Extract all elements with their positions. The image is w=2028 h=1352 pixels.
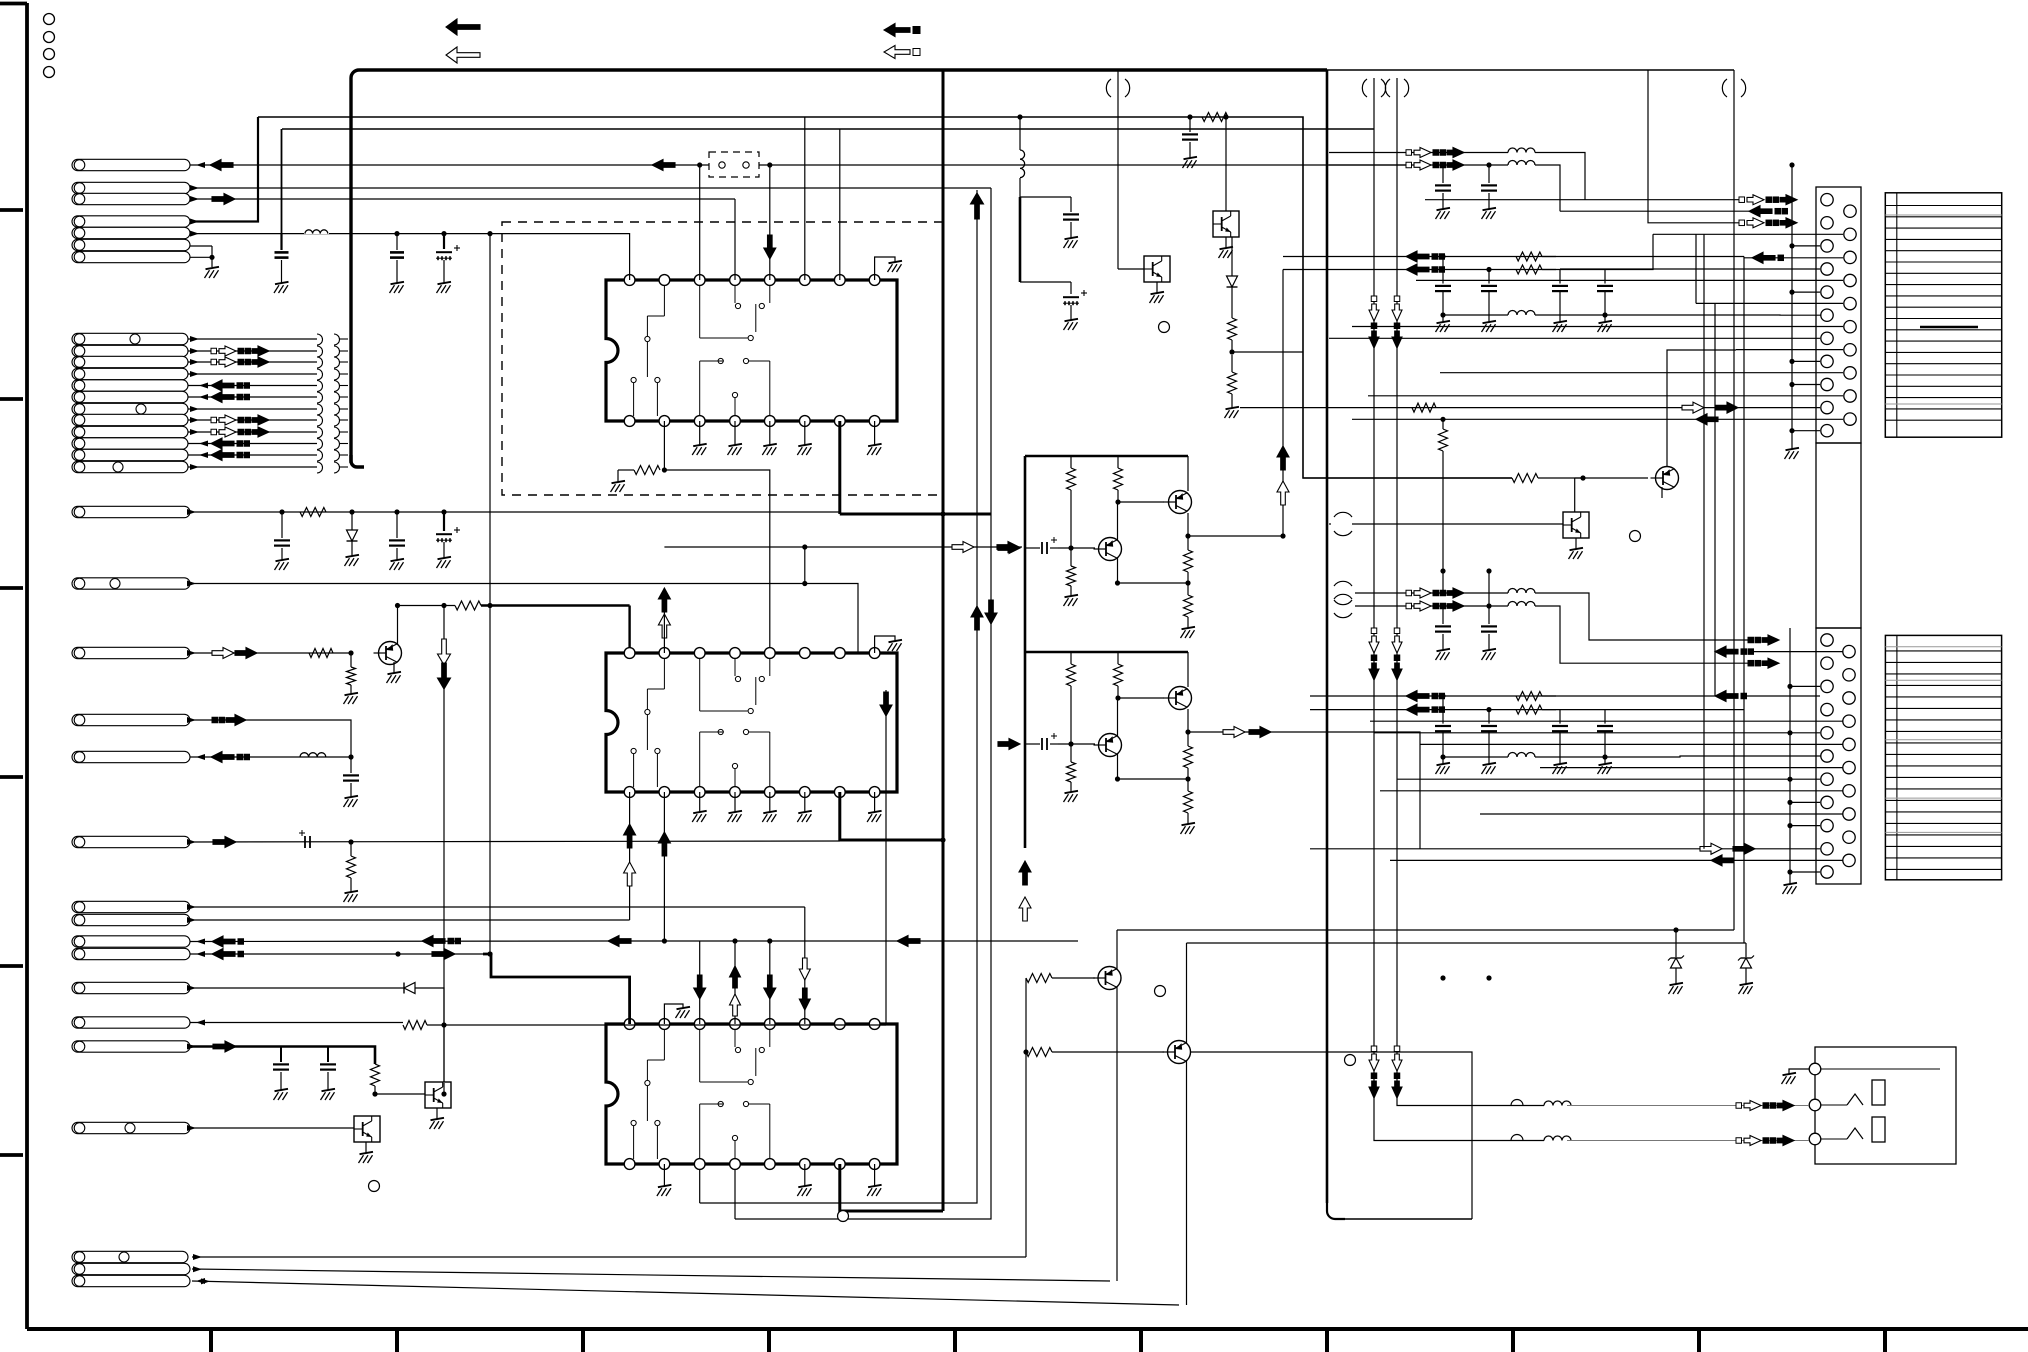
connector pin B11 bbox=[72, 449, 188, 460]
CN1 pin R7 bbox=[1844, 344, 1856, 356]
connector pin B7 bbox=[72, 403, 188, 414]
ground opto E bbox=[1575, 538, 1577, 549]
cluster1 output up bbox=[1282, 270, 1284, 537]
resistor on P8 wire bbox=[300, 508, 326, 517]
filter out row y269.5 bbox=[1283, 269, 1556, 271]
cable hook B10 a bbox=[317, 439, 323, 450]
CN1 feed row R9 bbox=[1368, 395, 1843, 397]
CN1 feed row R5 bbox=[1696, 302, 1843, 304]
connector pin P9b bbox=[72, 714, 190, 725]
groupB row1 right bbox=[1542, 256, 1744, 258]
ground cap right top bbox=[1064, 237, 1079, 248]
jack cluster R bbox=[1736, 1138, 1742, 1144]
CN1 feed row L7 bbox=[1329, 337, 1820, 339]
inductor P9c bbox=[300, 753, 326, 757]
filter inductor a bbox=[1508, 148, 1535, 153]
ground U3 pin6 bbox=[804, 1164, 806, 1186]
ground U1 pin6 bbox=[804, 421, 806, 445]
arrow on P3 wire bbox=[212, 194, 235, 205]
amp cluster 1 elcap2 bbox=[1041, 542, 1043, 554]
connector pin B6 bbox=[72, 391, 188, 402]
filter out cap 1489 bbox=[1488, 710, 1490, 724]
wire P12 bbox=[190, 919, 630, 921]
filter out cluster y269.5 bbox=[1406, 264, 1429, 275]
break groupC b bbox=[1334, 594, 1352, 599]
connector pin P20 bbox=[72, 1263, 190, 1274]
U1 pin2 bottom resistor bbox=[663, 421, 665, 470]
arrow cluster B8 bbox=[211, 417, 217, 423]
cable hook B8 b bbox=[334, 415, 340, 426]
wire pin3 up bbox=[699, 165, 701, 280]
thick stub x1020 bbox=[1019, 197, 1022, 282]
groupB cluster right bbox=[1752, 252, 1775, 263]
filter row y593 line bbox=[1355, 592, 1508, 594]
connector pin P14 bbox=[72, 948, 190, 959]
CN2 feed row R4 bbox=[1370, 720, 1843, 722]
filter out bus bbox=[1443, 314, 1508, 316]
wire to opto A bbox=[375, 1093, 425, 1095]
cap P17 a bbox=[280, 1047, 282, 1063]
ground U2 pin5 bbox=[769, 792, 771, 812]
resistor P16 bbox=[403, 1021, 427, 1030]
ground P10 res bbox=[344, 693, 359, 704]
filter out gnd 1605 bbox=[1598, 321, 1613, 332]
filter row y606 line bbox=[1355, 605, 1508, 607]
filter out gnd 1443 bbox=[1436, 321, 1451, 332]
ground U2 pin4 bbox=[734, 792, 736, 812]
link y547 to P9 wire bbox=[804, 547, 806, 584]
cap y117 drop bbox=[1189, 117, 1191, 132]
wire P4 thick elbow bbox=[190, 117, 258, 222]
legend arrow open left bbox=[446, 47, 480, 63]
amp cluster 1 resistor b bbox=[1117, 456, 1119, 468]
page border bottom bbox=[27, 1327, 2028, 1331]
border tick bottom 6 bbox=[1139, 1329, 1143, 1352]
ground elcap P8 bbox=[437, 557, 452, 568]
jack cluster L bbox=[1736, 1103, 1742, 1109]
U1 gnd jog bbox=[875, 257, 895, 280]
filter cluster y152.5 bbox=[1406, 150, 1412, 156]
CN2 arrow solid L10 bbox=[1733, 843, 1755, 854]
Q3a base vertical bbox=[1025, 978, 1027, 1257]
cable hook B7 b bbox=[334, 404, 340, 415]
break mark x1118 bbox=[1106, 79, 1111, 97]
ground cap2 P5 bbox=[390, 282, 405, 293]
filter out cluster y709.6 bbox=[1406, 704, 1429, 715]
legend arrow solid left with square bbox=[884, 24, 910, 37]
wire P14 elbow thick bbox=[398, 953, 483, 955]
connector pin P12 bbox=[72, 914, 190, 925]
amp cluster 2 elcap bbox=[1025, 743, 1040, 745]
arrow open up above U3 pin4 bbox=[730, 994, 741, 1016]
arrow cluster B2 bbox=[211, 348, 217, 354]
CN2 arrow R10 bbox=[1711, 855, 1733, 866]
amp cluster 2 transistor QB bbox=[1099, 734, 1122, 757]
amp cluster 2 resistor a bbox=[1070, 652, 1072, 664]
ground opto D bbox=[1156, 282, 1158, 293]
amp cluster 2 QA collector bbox=[1187, 652, 1189, 687]
amp cluster 1 bias ground bbox=[1064, 595, 1079, 606]
arrow cluster B11 bbox=[211, 450, 234, 461]
filter out cap 1560 bbox=[1559, 710, 1561, 724]
wire P19 bbox=[192, 1256, 1026, 1258]
wire B2 bbox=[188, 350, 317, 352]
ground U2 pin6 bbox=[804, 792, 806, 812]
border tick bottom 2 bbox=[395, 1329, 399, 1352]
CN2 pin R9 bbox=[1843, 831, 1855, 843]
amp cluster 2 bias ground bbox=[1064, 791, 1079, 802]
CN1 feed row L10 bbox=[1240, 407, 1820, 409]
connector pin P7 bbox=[72, 251, 190, 262]
amp cluster 2 bias resistor bbox=[1070, 744, 1072, 762]
groupB row3 out bbox=[1605, 314, 1821, 316]
CN2 arrow open L10 bbox=[1700, 843, 1722, 854]
filter out res b bbox=[1516, 265, 1542, 274]
connector pin B10 bbox=[72, 438, 188, 449]
filter out gnd 1605 bbox=[1598, 763, 1613, 774]
ground cap P17 a bbox=[274, 1089, 289, 1100]
CN1 cluster row R1 bbox=[1749, 206, 1772, 217]
CN2 feed row R6 bbox=[1540, 767, 1843, 769]
thick rail x943 bbox=[942, 70, 945, 1211]
wire pin5 up bbox=[769, 165, 771, 280]
arrow open up below U2 pin1 bbox=[624, 862, 636, 886]
connector pin P4 bbox=[72, 216, 190, 227]
elcap on P5 wire bbox=[441, 231, 446, 236]
filter dot a bbox=[1440, 603, 1445, 608]
Q3a emitter down bbox=[1116, 987, 1118, 1281]
CN1 stub y245.9 bbox=[1792, 245, 1820, 247]
arrow left P13 bbox=[212, 936, 235, 947]
amp cluster 1 emitter resistor bbox=[1187, 536, 1189, 550]
junction P10 bbox=[348, 650, 353, 655]
down cluster x1374 low bbox=[1371, 1046, 1377, 1052]
test point circle m3 bbox=[838, 1211, 849, 1222]
filter cluster y593 bbox=[1406, 590, 1412, 596]
CN2 cluster row3 sq bbox=[1748, 660, 1754, 666]
groupD row1 right bbox=[1542, 695, 1715, 697]
CN2 pin R3 bbox=[1843, 692, 1855, 704]
U3 pin7 thick drop bbox=[840, 1164, 943, 1211]
CN2 stub y732.8 bbox=[1790, 732, 1820, 734]
arrow down above U3 pin6 bbox=[799, 988, 810, 1010]
jack wire L2 bbox=[1567, 1105, 1809, 1107]
wire P2 bbox=[190, 187, 991, 189]
ground elcap right bbox=[1064, 319, 1079, 330]
wire pin6 up bbox=[804, 117, 806, 280]
wire opto D left bbox=[1118, 268, 1144, 270]
CN2 row R1 line bbox=[1749, 651, 1843, 653]
break x1397 bbox=[1385, 79, 1390, 97]
wire P6-P7 ground tie bbox=[190, 245, 212, 247]
wire y478 bbox=[1303, 477, 1512, 479]
resistor row L10 bbox=[1412, 403, 1436, 412]
hop jack R bbox=[1511, 1135, 1523, 1141]
filter out cap 1443 bbox=[1442, 257, 1444, 284]
ground P9d bbox=[344, 891, 359, 902]
down cluster x1397 top bbox=[1394, 296, 1400, 302]
ground U2 pin8 bbox=[874, 792, 876, 812]
cap2 on P8 wire bbox=[396, 512, 398, 538]
wire P9b bbox=[190, 720, 351, 757]
filter out gnd 1560 bbox=[1553, 763, 1568, 774]
CN2 feed row L5 bbox=[1374, 732, 1788, 734]
ground U1 pin5 bbox=[769, 421, 771, 445]
arrow open up on rail bbox=[1019, 897, 1031, 921]
wire y930 to zener bbox=[1117, 929, 1734, 931]
vertical x991 bbox=[735, 188, 991, 1219]
arrow down into U1 pin5 bbox=[764, 235, 776, 259]
ground Q1 bbox=[393, 662, 395, 673]
vertical bus x1648 bbox=[1648, 70, 1739, 223]
connector pin P21 bbox=[72, 1275, 190, 1286]
wire opto E top bbox=[1574, 478, 1576, 512]
arrow up on rail bbox=[1019, 861, 1031, 885]
CN1 stub y430.7 bbox=[1792, 430, 1820, 432]
connector CN1 body bbox=[1816, 187, 1861, 443]
filter gnd a bbox=[1436, 208, 1451, 219]
reference circle 3 bbox=[44, 49, 55, 60]
filter out gnd 1489 bbox=[1482, 763, 1497, 774]
groupA row1 elbow bbox=[1535, 153, 1585, 200]
U2 gnd jog bbox=[875, 636, 895, 653]
wire B4 bbox=[188, 373, 317, 375]
wire P16 to opto bbox=[443, 1025, 445, 1083]
transistor Q3a bbox=[1098, 967, 1121, 990]
amp cluster 1 bias resistor bbox=[1070, 548, 1072, 566]
arrow left y941 a bbox=[608, 936, 631, 947]
CN1 pin R6 bbox=[1844, 321, 1856, 333]
arrow down above U3 pin5 bbox=[764, 975, 776, 999]
hop jack L bbox=[1511, 1100, 1523, 1106]
ground cap P8 bbox=[275, 559, 290, 570]
amp cluster 1 top rail bbox=[1025, 455, 1188, 458]
CN1 pin R1 bbox=[1844, 205, 1856, 217]
wire P5 branch up bbox=[281, 129, 283, 234]
test point Q4 bbox=[1630, 531, 1641, 542]
border tick bottom 5 bbox=[953, 1329, 957, 1352]
cable hook B12 b bbox=[334, 462, 340, 473]
page border top cap bbox=[0, 2, 27, 6]
bus line y117 bbox=[258, 117, 1512, 478]
wire P9c bbox=[190, 756, 351, 758]
IC U3 bbox=[606, 1019, 897, 1170]
arrow right y547 bbox=[997, 542, 1019, 553]
arrow squares P9b bbox=[212, 717, 218, 723]
cable bus top horizontal bbox=[351, 70, 1327, 463]
vertical x1397 bbox=[1397, 78, 1544, 1106]
wire B6 bbox=[188, 396, 317, 398]
CN1 pin R2 bbox=[1844, 228, 1856, 240]
wire B3 bbox=[188, 361, 317, 363]
cable hook B11 a bbox=[317, 450, 323, 461]
vertical x1734 from bus bbox=[1733, 70, 1735, 930]
cable hook B7 a bbox=[317, 404, 323, 415]
dashed enclosure box bbox=[502, 222, 943, 495]
break groupC a bbox=[1334, 581, 1352, 586]
amp cluster 1 input arrow bbox=[998, 543, 1020, 554]
reference circle 1 bbox=[44, 14, 55, 25]
cluster1 output bbox=[1188, 535, 1283, 537]
CN1 feed row R4 bbox=[1416, 279, 1843, 281]
CN2 cluster row R1 bbox=[1715, 646, 1738, 657]
arrow down above U3 pin3 bbox=[694, 975, 706, 999]
arrow right P10 bbox=[235, 648, 257, 659]
wire U3 pin5 up bbox=[769, 941, 771, 1024]
cap P17 b bbox=[327, 1047, 329, 1063]
vertical x444 feed bbox=[443, 606, 445, 1084]
ground P9c bbox=[344, 796, 359, 807]
zener diode Z1 bbox=[1675, 930, 1677, 957]
wire pin1 up elbow bbox=[629, 233, 631, 280]
arrow up on x977 bbox=[971, 606, 983, 630]
CN1 pin L10 bbox=[1821, 401, 1833, 413]
border tick left 1 bbox=[0, 208, 23, 212]
CN1 pin R10 bbox=[1844, 413, 1856, 425]
filter out dots bbox=[1440, 693, 1445, 698]
amp cluster 1 QB collector bbox=[1117, 502, 1119, 540]
arrow open up cluster1 out bbox=[1277, 481, 1289, 505]
filter inductor a bbox=[1508, 589, 1535, 593]
filter dot b bbox=[1486, 603, 1491, 608]
wire P15 diode bbox=[190, 987, 404, 989]
cable hook B10 b bbox=[334, 439, 340, 450]
wire into opto E bbox=[1352, 523, 1563, 525]
arrow right cluster2 bbox=[1249, 727, 1271, 738]
CN2 feed row R5 bbox=[1420, 743, 1843, 745]
zener diode Z2 bbox=[1745, 943, 1747, 957]
filter out gnd 1560 bbox=[1553, 321, 1568, 332]
wire y941 bbox=[605, 940, 1078, 942]
wire P21 bbox=[192, 1281, 1179, 1305]
wire x1345 bottom bbox=[1345, 1218, 1472, 1220]
amp cluster 1 QA base wire bbox=[1118, 501, 1164, 503]
U2 pin7 thick drop bbox=[840, 792, 943, 840]
CN2 feed row R7 bbox=[1380, 790, 1843, 792]
CN1 feed row R2 bbox=[1653, 233, 1843, 235]
wire U3 pin6 up bbox=[804, 907, 806, 1024]
test point circle m2 bbox=[1345, 1055, 1356, 1066]
CN2 pin L5 bbox=[1821, 727, 1833, 739]
filter gnd b bbox=[1482, 208, 1497, 219]
groupA row2 out bbox=[1560, 210, 1749, 212]
down cluster x1397 bbox=[1394, 628, 1400, 634]
down cluster x1397 low bbox=[1394, 1046, 1400, 1052]
wire opto E stub bbox=[1329, 523, 1331, 525]
wire Q1 collector bbox=[397, 606, 399, 645]
cluster rail thick bbox=[1024, 456, 1027, 848]
arrow up above U2 pin2 bbox=[658, 588, 670, 612]
wire B5 bbox=[188, 385, 317, 387]
ground U3 pin2 bbox=[663, 1164, 665, 1186]
legend arrow solid left bbox=[446, 19, 480, 35]
amp cluster 2 emitter resistor bbox=[1187, 732, 1189, 746]
transistor Q3b bbox=[1168, 1041, 1191, 1064]
arrow up below U2 pin2 bbox=[658, 832, 670, 856]
Q4 collector up bbox=[1667, 350, 1736, 467]
jack contact bar b bbox=[1872, 1117, 1885, 1142]
cable bus bottom hook bbox=[351, 455, 364, 467]
wire P9 long bbox=[190, 584, 858, 654]
CN1 pin L6 bbox=[1821, 309, 1833, 321]
wire P3 bbox=[190, 198, 735, 200]
U3 gnd jog bbox=[664, 1004, 683, 1024]
filter row y165 line bbox=[1329, 164, 1508, 166]
CN2 pin L8 bbox=[1821, 796, 1833, 808]
amp cluster 2 elcap2 bbox=[1041, 738, 1043, 750]
wire U3 pin3 up bbox=[699, 941, 701, 1024]
filter inductor b bbox=[1508, 602, 1535, 607]
vertical x886 bbox=[885, 690, 887, 1025]
cap on P5 wire bbox=[280, 234, 282, 250]
connector pin P8 bbox=[72, 506, 190, 517]
CN1 feed row R6 bbox=[1352, 326, 1843, 328]
wire P11 bbox=[190, 906, 805, 908]
connector CN2 body bbox=[1816, 628, 1861, 884]
U2 pin2 down bbox=[663, 792, 665, 941]
ground U1 pin4 bbox=[734, 421, 736, 445]
border tick bottom 4 bbox=[767, 1329, 771, 1352]
wire P10 bbox=[190, 652, 351, 654]
U2 pin1 down bbox=[629, 792, 631, 920]
connector pin B4 bbox=[72, 368, 188, 379]
junction P5 x490 bbox=[487, 231, 492, 236]
connector pin B1 bbox=[72, 333, 188, 344]
resistor Q4 base bbox=[1512, 474, 1538, 483]
amp cluster 2 QA base wire bbox=[1118, 697, 1164, 699]
wire Q1 to U2 pin1 bbox=[398, 605, 456, 607]
wire chain tap bbox=[1232, 351, 1303, 353]
connector pin P16 bbox=[72, 1017, 190, 1028]
jack inductor L bbox=[1544, 1101, 1571, 1106]
CN2 pin L11 bbox=[1821, 866, 1833, 878]
filter cap b bbox=[1488, 606, 1490, 624]
wire P16 bbox=[190, 1022, 403, 1024]
filter inductor b bbox=[1508, 161, 1535, 166]
arrow right P9d bbox=[213, 837, 236, 848]
connector pin B12 bbox=[72, 461, 188, 472]
opto transistor B bbox=[354, 1116, 380, 1142]
filter cluster y165 bbox=[1406, 162, 1412, 168]
arrow open right y547 bbox=[952, 542, 974, 553]
wire U3 pin4 drop bbox=[734, 1164, 736, 1219]
amp cluster 2 QB collector bbox=[1117, 698, 1119, 736]
wire opto C top bbox=[1225, 117, 1227, 211]
cable hook B1 a bbox=[317, 334, 323, 345]
CN2 pin L7 bbox=[1821, 773, 1833, 785]
ground cap P5 bbox=[274, 282, 289, 293]
filter out cap 1605 bbox=[1604, 710, 1606, 724]
CN1 pin L3 bbox=[1821, 240, 1833, 252]
filter out row y256.5 bbox=[1283, 256, 1556, 258]
CN1 pin R4 bbox=[1844, 274, 1856, 286]
jack inductor R bbox=[1544, 1136, 1571, 1141]
ground U1 top right bbox=[888, 261, 903, 272]
groupC row1 elbow bbox=[1535, 593, 1748, 640]
wire above U2 pin2 bbox=[663, 588, 665, 653]
ground Z2 bbox=[1739, 983, 1754, 994]
resistor chain a bbox=[1231, 287, 1233, 318]
Q3b collector up bbox=[1186, 943, 1188, 1043]
border tick left 3 bbox=[0, 586, 23, 590]
amp cluster 1 base wire bbox=[1058, 547, 1095, 549]
CN2 cluster row4 bbox=[1715, 691, 1738, 702]
amp cluster 1 feedback wire bbox=[1118, 582, 1189, 584]
down cluster x1374 top bbox=[1371, 296, 1377, 302]
arrow on P1 wire bbox=[210, 160, 233, 171]
CN1 rail bbox=[1791, 165, 1793, 449]
CN2 pin R10 bbox=[1843, 854, 1855, 866]
